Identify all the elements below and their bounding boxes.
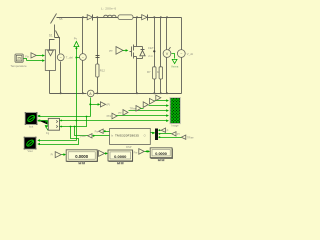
svg-text:T_del: T_del [66, 55, 73, 59]
resistor R8 [157, 67, 163, 79]
wire scope1 input2 to tag [37, 119, 47, 124]
transistor FET1 [130, 18, 146, 94]
gain block P [100, 102, 105, 107]
svg-text:TMS320F28035: TMS320F28035 [115, 134, 139, 138]
svg-text:S5: S5 [59, 17, 63, 21]
svg-text:TRise: TRise [187, 135, 194, 139]
svg-text:Pw: Pw [134, 151, 138, 155]
bus bar black [155, 129, 158, 141]
svg-text:(P): (P) [106, 103, 110, 107]
svg-text:0.0000: 0.0000 [114, 154, 127, 159]
gain T3 TRise [130, 106, 144, 112]
variable resistor block U2 [45, 50, 55, 94]
ammeter A1 [87, 90, 94, 97]
svg-text:pw: pw [118, 111, 121, 114]
svg-text:25: 25 [17, 57, 21, 61]
wire scope1 input1 [37, 115, 90, 118]
wire rail R8 [160, 18, 162, 94]
switch S5 [51, 14, 63, 38]
wire ammeter output [91, 98, 99, 117]
svg-text:O: O [144, 133, 146, 137]
wire constant to block pin2 [24, 59, 46, 62]
wire demux out1 to bus pin5 [60, 120, 167, 122]
svg-text:~: ~ [180, 52, 182, 56]
display meter 3 [150, 148, 172, 161]
port Pi [51, 152, 67, 158]
wire demux out2 branches [37, 116, 92, 146]
voltmeter V3 [163, 18, 171, 94]
wire DSP output [151, 132, 156, 135]
tag out Pf [172, 132, 176, 136]
svg-text:Pi: Pi [51, 153, 54, 157]
display meter 2 [108, 150, 133, 164]
gain T4 [143, 102, 166, 108]
port Pv2 [99, 150, 108, 156]
svg-text:Vmea: Vmea [171, 65, 179, 69]
scope SC1 [25, 112, 38, 129]
svg-text:V_dc: V_dc [187, 52, 194, 56]
bus block green [143, 31, 208, 186]
diode D1 [87, 15, 92, 21]
wire rail R7 [154, 18, 156, 94]
svg-text:Pw: Pw [95, 129, 99, 133]
tag out P [161, 128, 165, 132]
svg-text:Vout: Vout [27, 149, 32, 153]
tag pwm from [80, 134, 109, 138]
wire green stub to source V2 [77, 57, 81, 59]
capacitor C1 [96, 56, 100, 58]
gain buffer pwm drive [109, 47, 128, 55]
gain T2 pwm [118, 110, 166, 116]
gain buffer A1 [31, 53, 36, 58]
wire right rail V_dc [181, 18, 183, 94]
svg-text:R: R [157, 70, 159, 74]
svg-text:S1: S1 [49, 34, 53, 38]
svg-text:~: ~ [60, 56, 62, 60]
wire top rail [57, 17, 182, 19]
source T_del V1 [57, 54, 73, 94]
svg-text:L: 200e-6: L: 200e-6 [101, 6, 116, 10]
wire bar out2 [159, 133, 172, 135]
wire voltmeter output to Vmea [172, 54, 175, 59]
svg-text:R7: R7 [147, 70, 151, 74]
resistor R0 top [118, 15, 133, 20]
wire bar out3 [159, 137, 182, 139]
node junction dot [136, 92, 138, 94]
node junction dot [96, 16, 98, 18]
inductor L1 [101, 6, 116, 17]
port tag down arrow [45, 126, 50, 130]
svg-text:0.0000: 0.0000 [155, 152, 167, 156]
svg-text:pwm: pwm [80, 135, 85, 138]
port Fw [134, 149, 151, 155]
resistor R12 [96, 64, 106, 77]
source V2 [80, 18, 87, 94]
diode D2 [142, 15, 148, 21]
DSP block TMS320F28035 [110, 129, 151, 150]
probe Pv arrow [74, 37, 79, 141]
svg-text:R12: R12 [100, 69, 106, 73]
gain T5 [150, 98, 167, 104]
port Vmea arrow [172, 59, 177, 63]
constant block Temperature [10, 54, 27, 68]
svg-text:DSP: DSP [126, 145, 132, 149]
svg-text:Image: Image [171, 124, 179, 128]
display meter 1 [66, 150, 97, 164]
wire bottom rail [50, 93, 182, 95]
resistor R7 [147, 67, 156, 79]
demux block [45, 118, 59, 130]
wire bar out1 [159, 130, 161, 132]
svg-text:V: V [166, 52, 169, 56]
svg-text:Pf: Pf [177, 132, 180, 136]
tag out TRise [181, 135, 185, 139]
tag Pw from [95, 129, 110, 133]
svg-text:2 m: 2 m [148, 54, 153, 58]
source V_dc [177, 50, 193, 58]
scope SC2 [24, 137, 37, 154]
svg-text:Temperature: Temperature [10, 64, 27, 68]
svg-text:0.0000: 0.0000 [75, 154, 88, 159]
wire scope2 input1 from Pv line [37, 139, 76, 142]
bus pin arrows [166, 99, 169, 122]
wire rail R12 [97, 18, 99, 94]
svg-text:P: P [167, 128, 169, 132]
switch S1 [49, 31, 60, 54]
node junction dots [82, 16, 84, 18]
node junction dot [136, 16, 138, 18]
node junction dot [96, 92, 98, 94]
node junction dot [60, 92, 62, 94]
gain T1 PFin [107, 113, 167, 119]
wire buffer to block pin1 [37, 54, 46, 57]
svg-text:~: ~ [82, 55, 84, 59]
svg-text:Iout: Iout [29, 125, 34, 129]
gain T6 [156, 95, 161, 101]
svg-text:Fix: Fix [25, 54, 29, 58]
